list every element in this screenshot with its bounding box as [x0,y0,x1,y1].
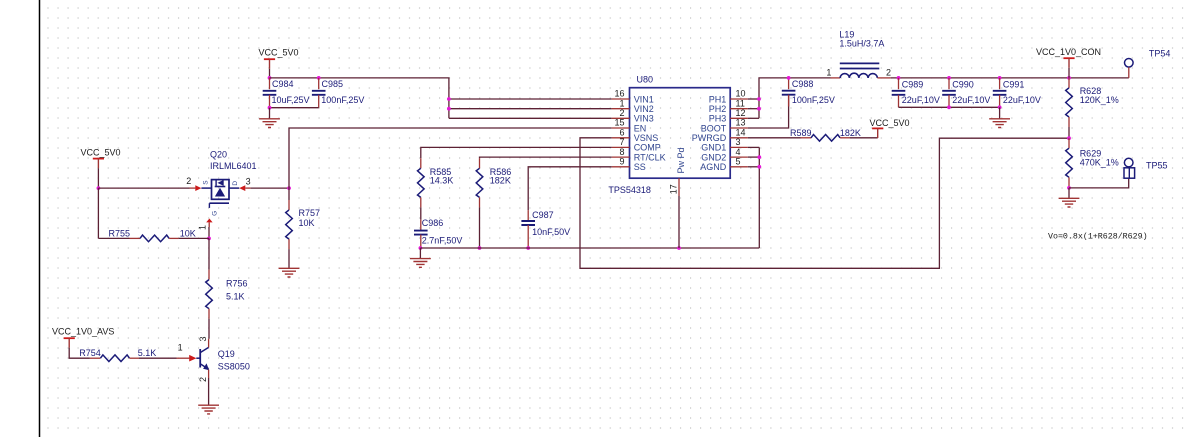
pin 14 PWRGD of U80 [730,137,748,139]
svg-text:Pw Pd: Pw Pd [676,147,686,173]
pin 9 SS of U80 [612,166,630,168]
svg-text:120K_1%: 120K_1% [1080,95,1119,105]
svg-text:GND1: GND1 [701,143,726,153]
wire VIN2 feed [449,108,612,110]
wire R585 to C986 [420,207,422,219]
pin 12 PH3 of U80 [730,117,748,119]
node VIN2 tap [447,107,451,111]
pin 7 COMP of U80 [612,146,630,148]
resistor R754 [90,357,101,359]
ground for output caps [999,107,1001,118]
svg-text:VCC_1V0_AVS: VCC_1V0_AVS [52,327,114,337]
svg-text:R757: R757 [299,208,321,218]
wire Q20 gate to R755/R756 node [208,227,210,238]
svg-text:100nF,25V: 100nF,25V [321,95,364,105]
wire VCC_5V0 stem [269,69,271,78]
wire to TP55 [1069,178,1129,188]
resistor R629 [1068,138,1070,148]
svg-text:10nF,50V: 10nF,50V [532,227,570,237]
wire Q19 emitter to ground [208,378,210,405]
node AGND tap [757,165,761,169]
svg-text:TPS54318: TPS54318 [608,185,651,195]
node VCC_5V0/R755/Q20 source junction [97,186,101,190]
svg-text:182K: 182K [840,128,861,138]
node GND2 tap [757,155,761,159]
svg-text:12: 12 [736,108,746,118]
wire SS to C987 [528,167,612,210]
svg-text:VIN1: VIN1 [634,94,654,104]
capacitor C991 [999,78,1001,89]
svg-text:C985: C985 [322,79,344,89]
ground for C986 [419,248,421,258]
node Q20 drain / EN / R757 junction [287,186,291,190]
wire VSNS to feedback [580,138,1069,268]
wire BOOT to C988 [748,95,789,128]
node gate/R755/R756 junction [207,237,211,241]
svg-text:D: D [232,181,239,186]
svg-text:11: 11 [736,98,745,108]
svg-text:13: 13 [736,118,746,128]
svg-text:Q19: Q19 [218,349,235,359]
node C984 bottom junction [268,106,272,110]
wire GND pins tie [748,146,760,148]
ground for Q19 [198,405,219,414]
svg-text:C984: C984 [272,79,294,89]
power symbol VCC_5V0 (right) [872,127,883,129]
node output/R628 junction [1067,76,1071,80]
capacitor C987 [527,210,529,221]
node VCC_5V0 / C984 top junction [268,76,272,80]
svg-text:3: 3 [198,336,208,341]
svg-text:C986: C986 [422,218,444,228]
wire R589 to VCC_5V0 [850,137,878,139]
wire AGND rail [420,247,759,249]
wire output caps bottom [899,106,1000,108]
svg-text:7: 7 [619,137,624,147]
resistor R589 [801,137,812,139]
node R586 bottom junction [478,246,482,250]
svg-text:1: 1 [619,98,624,108]
node C988 top junction [787,76,791,80]
svg-text:VIN2: VIN2 [634,104,654,114]
wire R755 to gate node [179,237,209,239]
svg-text:BOOT: BOOT [701,123,727,133]
sheet border line [39,0,41,437]
wire VCC_5V0 top rail to VIN elbow [270,78,449,118]
svg-text:10K: 10K [180,229,196,239]
svg-text:SS: SS [634,162,646,172]
wire RT/CLK to R586 [480,157,612,158]
svg-text:VSNS: VSNS [634,133,659,143]
wire Q20 drain to junction [251,187,289,189]
op-amp U80 TPS54318 body [630,88,731,179]
wire pin17 to AGND rail [678,196,680,248]
pin 10 PH1 of U80 [730,98,748,100]
wire Q20 source rail [98,187,189,189]
svg-text:EN: EN [634,123,647,133]
wire R757 to ground [288,249,290,268]
svg-text:1: 1 [197,225,207,230]
capacitor C985 [318,78,320,89]
svg-text:VIN3: VIN3 [634,114,654,124]
svg-text:14.3K: 14.3K [430,176,454,186]
pin 6 VSNS of U80 [612,137,630,139]
svg-text:2: 2 [186,176,191,186]
test point TP54 [1125,59,1134,68]
wire VCC_5V0 stem to source rail [97,168,99,188]
resistor R628 [1068,78,1070,88]
test point TP55 [1124,158,1133,167]
power symbol VCC_1V0_CON [1063,57,1074,59]
svg-text:3: 3 [246,176,251,186]
ground for C984/C985 [269,108,271,119]
node C989 top [897,76,901,80]
svg-text:R754: R754 [79,348,101,358]
wire junction to R757 [288,188,290,200]
wire VCC to R755 [97,188,99,238]
svg-text:C990: C990 [952,79,974,89]
svg-text:1: 1 [178,343,183,353]
node C986 bottom / AGND junction [419,246,423,250]
pin 4 GND2 of U80 [730,156,748,158]
wire R628 to junction [1068,127,1070,138]
svg-text:15: 15 [614,118,624,128]
pin 3 GND1 of U80 [730,146,748,148]
node C991 bottom [998,105,1002,109]
svg-text:16: 16 [614,89,624,99]
svg-text:VCC_1V0_CON: VCC_1V0_CON [1036,47,1101,57]
wire R756 to Q19 collector [208,319,210,339]
svg-text:10K: 10K [299,218,315,228]
svg-text:5.1K: 5.1K [226,292,245,302]
svg-text:TP55: TP55 [1146,161,1168,171]
capacitor C990 [948,78,950,89]
node R628/R629/VSNS junction [1067,136,1071,140]
capacitor C988 [782,91,796,95]
node PH2 tap [757,107,761,111]
svg-text:RT/CLK: RT/CLK [634,152,666,162]
svg-text:1: 1 [826,67,831,77]
pin 8 RT/CLK of U80 [612,156,630,158]
svg-text:C987: C987 [532,210,554,220]
pin 15 EN of U80 [612,127,630,129]
svg-text:C988: C988 [792,79,814,89]
node PwPd/AGND junction [677,246,681,250]
resistor R586 [479,158,481,168]
svg-text:PH3: PH3 [709,114,727,124]
svg-text:GND2: GND2 [701,152,726,162]
pin 1 VIN2 of U80 [612,108,630,110]
svg-text:R589: R589 [790,128,812,138]
resistor R756 [208,270,210,280]
svg-text:COMP: COMP [634,143,661,153]
svg-text:C991: C991 [1003,79,1025,89]
wire R586 to AGND rail [479,207,481,248]
wire VIN3 feed [449,117,612,119]
wire VCC_1V0_CON stem [1068,68,1070,78]
svg-text:10: 10 [736,89,746,99]
svg-text:PWRGD: PWRGD [692,133,727,143]
svg-text:IRLML6401: IRLML6401 [210,161,257,171]
svg-text:C989: C989 [902,79,924,89]
svg-text:R756: R756 [226,278,248,288]
wire output rail [891,77,1129,79]
svg-text:5: 5 [736,157,741,167]
svg-text:1.5uH/3.7A: 1.5uH/3.7A [839,38,884,48]
power symbol VCC_1V0_AVS [64,337,75,339]
wire VCC_1V0_AVS to R754 [69,348,90,358]
node C985 top junction [317,76,321,80]
svg-text:100nF,25V: 100nF,25V [792,95,835,105]
svg-text:2: 2 [619,108,624,118]
node C991 top [998,76,1002,80]
svg-text:10uF,25V: 10uF,25V [272,95,310,105]
power symbol VCC_5V0 (top) [264,58,275,60]
pin 5 AGND of U80 [730,166,748,168]
ground for R629 [1068,188,1070,198]
svg-text:U80: U80 [637,74,654,84]
node C990 bottom [947,105,951,109]
node R629 bottom junction [1067,186,1071,190]
node C987 bottom junction [526,246,530,250]
wire C984-C985 bottom [270,107,319,109]
pin 17 PwPd of U80 [678,178,680,196]
svg-text:22uF,10V: 22uF,10V [1003,95,1041,105]
wire PWRGD to R589 [748,137,801,139]
wire COMP to R585 [421,147,612,158]
wire PH pins tie [748,98,759,100]
wire VIN1 feed [449,98,612,100]
svg-text:SS8050: SS8050 [218,361,250,371]
svg-text:5.1K: 5.1K [138,348,157,358]
svg-text:G: G [211,211,218,216]
pin 11 PH2 of U80 [730,108,748,110]
svg-text:2: 2 [886,68,891,78]
svg-text:14: 14 [736,128,746,138]
resistor R585 [420,158,422,168]
node VIN1 tap [447,97,451,101]
svg-text:17: 17 [668,184,678,194]
svg-text:4: 4 [736,147,741,157]
pin 16 VIN1 of U80 [612,98,630,100]
svg-text:S: S [202,180,209,185]
wire R754 to Q19 base [139,357,177,359]
wire gate node to R756 [208,238,210,269]
node PH1 tap [757,97,761,101]
ground for R757 [279,268,300,277]
svg-text:3: 3 [736,137,741,147]
svg-text:PH2: PH2 [709,104,727,114]
svg-text:9: 9 [619,157,624,167]
resistor R757 [288,200,290,210]
svg-text:VCC_5V0: VCC_5V0 [870,118,910,128]
pin 13 BOOT of U80 [730,127,748,129]
capacitor C989 [898,78,900,89]
svg-text:2: 2 [198,377,208,382]
power symbol VCC_5V0 (left) [93,158,104,160]
svg-text:TP54: TP54 [1149,49,1171,59]
svg-text:PH1: PH1 [709,94,727,104]
node C990 top [947,76,951,80]
svg-text:22uF,10V: 22uF,10V [902,95,940,105]
svg-text:R755: R755 [109,229,131,239]
svg-text:182K: 182K [490,176,511,186]
capacitor C984 [269,78,271,89]
svg-text:2.7nF,50V: 2.7nF,50V [422,236,463,246]
svg-text:Q20: Q20 [210,150,227,160]
resistor R755 [130,237,141,239]
svg-text:8: 8 [619,147,624,157]
svg-text:6: 6 [619,128,624,138]
svg-text:VCC_5V0: VCC_5V0 [259,47,299,57]
svg-text:470K_1%: 470K_1% [1080,158,1119,168]
capacitor C986 [420,220,422,231]
svg-text:22uF,10V: 22uF,10V [952,95,990,105]
pin 2 VIN3 of U80 [612,117,630,119]
svg-text:AGND: AGND [700,162,727,172]
svg-text:VCC_5V0: VCC_5V0 [81,147,121,157]
wire EN net vertical [289,128,612,188]
svg-text:Vo=0.8x(1+R628/R629): Vo=0.8x(1+R628/R629) [1048,231,1148,241]
